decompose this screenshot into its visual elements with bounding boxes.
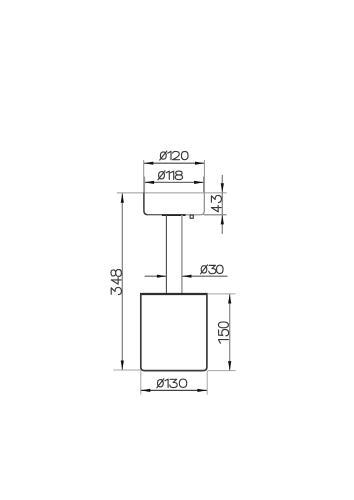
dimension 43: dim line and arrows	[221, 175, 224, 234]
extension line top of 43 dim, right of disc	[204, 192, 226, 194]
lamp head disc outline	[144, 192, 204, 215]
dimension o130: label	[157, 379, 187, 388]
body outline	[141, 293, 207, 370]
extension line top of 348 dim, left of disc	[117, 192, 144, 194]
body top edge	[140, 293, 208, 295]
dimension o30: dim lines and arrows	[145, 275, 228, 278]
stem right edge	[181, 215, 183, 294]
switch notch under disc	[190, 215, 193, 218]
dimension 348: bottom extension line	[113, 369, 141, 371]
dimension 150: extension lines	[208, 294, 236, 371]
lamp head disc top edge	[144, 192, 205, 194]
dimension 43: label	[211, 195, 221, 211]
dimension o30: label	[201, 265, 224, 274]
dimension o120: label	[160, 151, 188, 160]
dimension 348: label	[111, 270, 121, 295]
stem left edge	[165, 215, 167, 294]
dimension o130: dim line and arrows	[141, 389, 207, 392]
dimension o120: dim line, arrows, extension lines	[144, 160, 205, 193]
dimension 348: dim line and arrows	[121, 193, 124, 370]
dimension 150: dim line and arrows	[228, 294, 231, 371]
dimension o118: dim line and arrows	[145, 181, 204, 184]
dimension o130: extension lines	[141, 371, 207, 395]
dimension o118: label	[158, 171, 183, 180]
extension line bottom of 43 dim, right of disc	[204, 214, 227, 216]
dimension 150: label	[218, 322, 228, 343]
